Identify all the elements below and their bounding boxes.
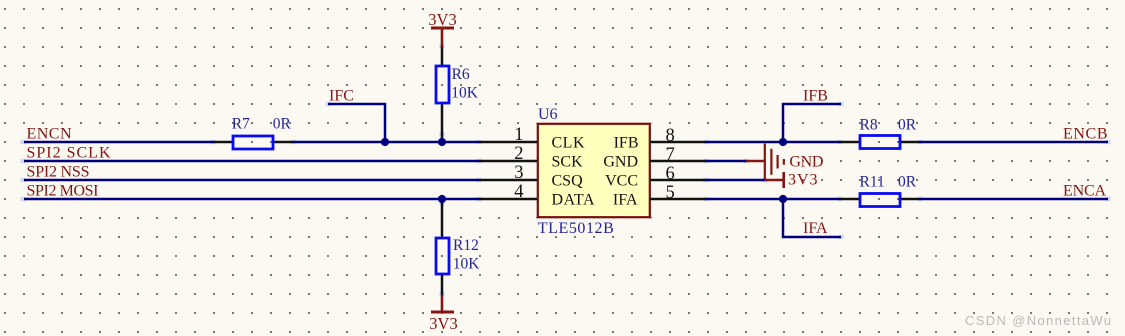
resistor R7 xyxy=(213,136,293,149)
svg-text:3V3: 3V3 xyxy=(428,10,457,29)
svg-text:3V3: 3V3 xyxy=(788,172,818,189)
power 3V3 top xyxy=(428,10,457,47)
power 3V3 bottom xyxy=(429,295,458,333)
svg-text:SPI2 SCLK: SPI2 SCLK xyxy=(27,145,111,162)
svg-text:SPI2 NSS: SPI2 NSS xyxy=(27,164,90,181)
svg-text:R6: R6 xyxy=(452,66,470,83)
wire R11 to ENCA xyxy=(920,198,1108,201)
svg-text:6: 6 xyxy=(666,164,675,184)
svg-text:IFB: IFB xyxy=(803,88,828,105)
svg-text:U6: U6 xyxy=(538,106,558,123)
svg-text:0R: 0R xyxy=(273,116,292,133)
pin 7 GND xyxy=(650,160,706,163)
svg-text:IFC: IFC xyxy=(329,88,354,105)
junction on pin8 row at IFB xyxy=(779,138,787,146)
resistor R11 xyxy=(840,194,920,207)
svg-text:0R: 0R xyxy=(898,174,917,191)
svg-text:CLK: CLK xyxy=(552,135,585,152)
wire SPI2_NSS row xyxy=(24,179,479,182)
svg-text:2: 2 xyxy=(514,144,523,164)
wire IFA stub xyxy=(783,199,841,237)
wire IFC stub xyxy=(328,104,385,142)
resistor R6 xyxy=(436,46,449,140)
svg-text:5: 5 xyxy=(666,183,675,203)
wire SPI2_MOSI row xyxy=(24,198,479,201)
svg-text:TLE5012B: TLE5012B xyxy=(538,220,614,237)
pin 8 IFB xyxy=(650,141,706,144)
IC U6 TLE5012B body xyxy=(534,121,654,220)
pin 6 VCC xyxy=(650,179,706,182)
svg-text:GND: GND xyxy=(603,154,638,171)
svg-text:7: 7 xyxy=(666,145,675,165)
svg-text:10K: 10K xyxy=(451,85,479,102)
svg-text:1: 1 xyxy=(514,125,523,145)
svg-text:IFB: IFB xyxy=(614,135,639,152)
svg-text:R11: R11 xyxy=(860,174,885,191)
pin 1 CLK xyxy=(479,141,537,144)
svg-text:SPI2 MOSI: SPI2 MOSI xyxy=(27,183,99,200)
power 3V3 right xyxy=(765,172,818,189)
svg-text:IFA: IFA xyxy=(803,220,828,237)
resistor R8 xyxy=(840,136,920,149)
wire IFB stub xyxy=(783,104,841,142)
wire SPI2_SCLK row xyxy=(24,160,479,163)
svg-text:3V3: 3V3 xyxy=(429,314,458,333)
svg-text:R8: R8 xyxy=(860,117,878,134)
wire R8 to ENCB xyxy=(920,141,1108,144)
svg-text:R12: R12 xyxy=(453,237,479,254)
svg-text:SCK: SCK xyxy=(552,154,584,171)
junction on ENCN row at IFC xyxy=(381,138,389,146)
wire pin6 to 3V3 xyxy=(706,179,765,182)
junction on pin5 row at IFA xyxy=(779,195,787,203)
svg-text:8: 8 xyxy=(666,126,675,146)
svg-text:IFA: IFA xyxy=(613,192,638,209)
svg-text:ENCB: ENCB xyxy=(1063,126,1108,143)
resistor R12 xyxy=(436,201,449,295)
wire pin8 to R8 xyxy=(706,141,840,144)
ground xyxy=(746,144,823,180)
svg-text:R7: R7 xyxy=(232,116,250,133)
pin 5 IFA xyxy=(650,198,706,201)
pin 3 CSQ xyxy=(479,179,537,182)
svg-text:VCC: VCC xyxy=(605,173,638,190)
svg-text:CSQ: CSQ xyxy=(552,173,584,190)
wire pin7 to GND xyxy=(706,160,746,163)
svg-text:4: 4 xyxy=(514,182,523,202)
wire pin5 to R11 xyxy=(706,198,840,201)
svg-text:0R: 0R xyxy=(898,117,917,134)
pin 2 SCK xyxy=(479,160,537,163)
svg-text:10K: 10K xyxy=(453,256,481,273)
wire ENCN row R7 to pin1 xyxy=(293,141,479,144)
svg-text:GND: GND xyxy=(789,154,823,171)
junction on SPI2_MOSI row at R12 xyxy=(438,195,446,203)
svg-text:ENCN: ENCN xyxy=(27,126,72,143)
svg-text:3: 3 xyxy=(514,163,523,183)
svg-text:DATA: DATA xyxy=(552,192,595,209)
wire ENCN row left of R7 xyxy=(24,141,213,144)
wire endpoint connection marks xyxy=(21,44,1111,296)
junction on ENCN row at R6 xyxy=(438,138,446,146)
svg-text:ENCA: ENCA xyxy=(1063,183,1106,200)
pin 4 DATA xyxy=(479,198,537,201)
